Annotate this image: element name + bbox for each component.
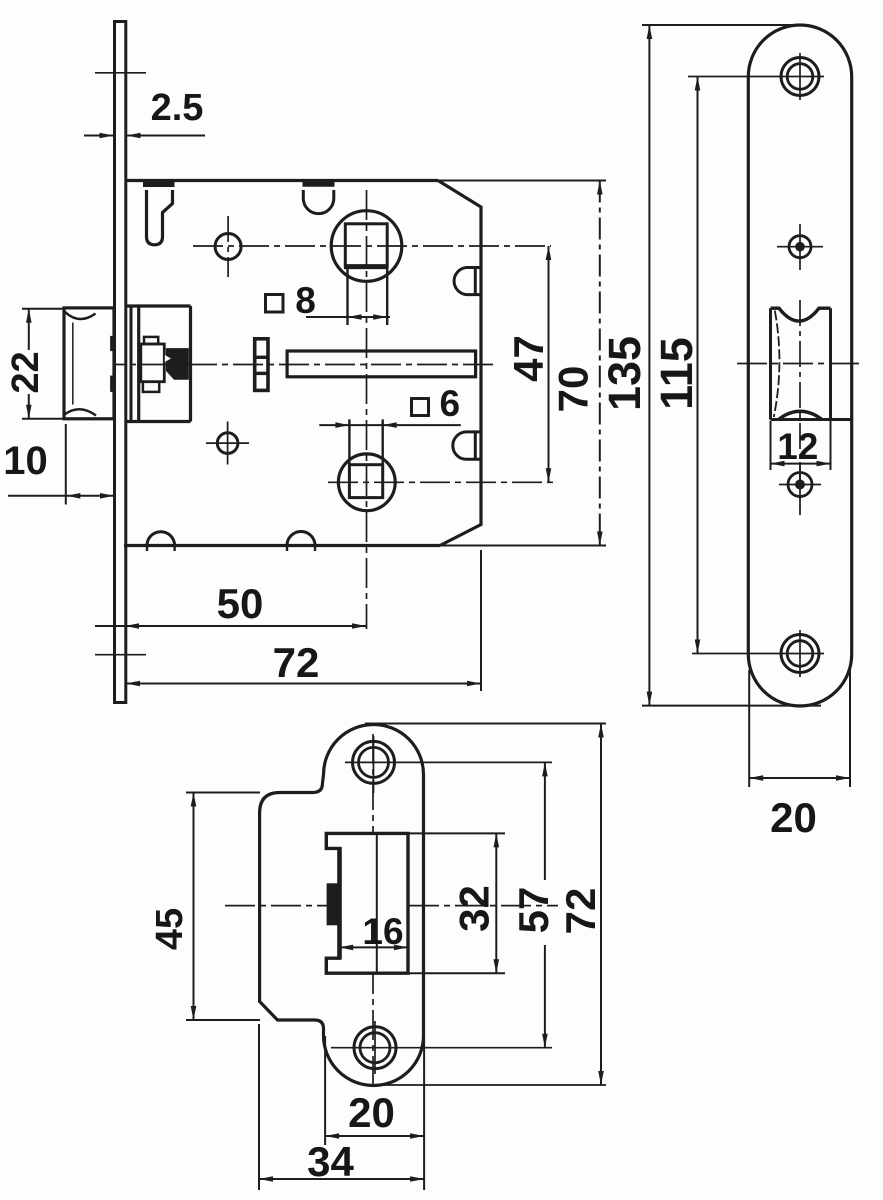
dimension 12 <box>770 421 772 470</box>
strike bottom screw hole <box>354 1027 396 1069</box>
big circle handle hub <box>331 211 402 282</box>
upper horizontal centerline <box>193 245 551 247</box>
bottom bump right <box>287 532 315 546</box>
dimension 6 <box>319 424 461 426</box>
latch opening bottom edge <box>771 418 852 421</box>
dimension 32 <box>408 832 505 834</box>
spindle vertical centerline <box>366 190 368 629</box>
svg-text:70: 70 <box>550 366 597 413</box>
small circle lower-left <box>217 433 238 454</box>
latch opening top edge with dip <box>771 308 831 321</box>
svg-text:16: 16 <box>362 911 403 952</box>
dimension 47 <box>548 246 550 482</box>
square spindle hole 8mm <box>345 224 387 267</box>
svg-text:20: 20 <box>348 1089 395 1136</box>
small circle upper-left <box>215 234 241 260</box>
square hole 6mm label <box>412 399 429 416</box>
lock body top edge with extension <box>126 179 438 182</box>
top U-cup outline <box>303 190 334 214</box>
strike latch hole <box>326 833 408 973</box>
dimension 115 <box>697 77 699 654</box>
dimension 8 <box>306 316 390 318</box>
dimension 70 <box>599 181 601 546</box>
lock body right edge with chamfers <box>438 181 481 546</box>
svg-text:57: 57 <box>510 887 557 934</box>
dimension 34 <box>258 1024 260 1190</box>
faceplate edge strip <box>115 22 126 703</box>
faceplate outline <box>748 25 851 706</box>
latch hole divider <box>376 833 378 973</box>
small circle vertical centerline <box>227 216 229 277</box>
svg-text:72: 72 <box>557 888 604 935</box>
svg-text:8: 8 <box>295 280 316 321</box>
lower spindle circle <box>338 454 395 511</box>
top U-cup rim bar <box>303 179 335 187</box>
latch tail edge line <box>130 308 133 421</box>
svg-text:10: 10 <box>3 439 48 483</box>
D-cutout lower right <box>453 432 481 459</box>
strike top screw hole <box>353 741 395 783</box>
lock body bottom edge with extension <box>124 544 440 547</box>
strike vertical centerline <box>372 734 374 1090</box>
dimension 20 (faceplate) <box>748 670 750 787</box>
svg-text:50: 50 <box>217 580 264 627</box>
svg-text:20: 20 <box>770 794 817 841</box>
svg-text:32: 32 <box>451 885 498 932</box>
slotted plate <box>255 339 268 391</box>
top screw hole <box>781 58 819 96</box>
strike horizontal centerline <box>225 905 558 907</box>
follower top nub <box>144 337 158 344</box>
lower pin hole <box>788 473 812 497</box>
strike plate outline <box>260 725 424 1086</box>
middle pin hole <box>789 236 811 258</box>
svg-text:45: 45 <box>149 908 191 950</box>
dimension 20 (strike) <box>324 1036 326 1145</box>
lower square spindle hole 6mm <box>349 465 382 498</box>
dimension 22 <box>22 308 63 310</box>
135 top extension line <box>642 24 793 26</box>
bottom bump left <box>147 532 175 546</box>
strip bottom screw centerline tick <box>95 654 146 656</box>
dimension 45 <box>186 792 260 794</box>
faceplate horizontal centerline (latch axis) <box>737 363 863 365</box>
latch bolt curved face <box>774 311 780 418</box>
dimension 135 <box>648 25 650 706</box>
follower bottom nub <box>143 382 159 392</box>
lower spindle horizontal centerline <box>328 481 553 483</box>
D-cutout upper right <box>454 268 481 295</box>
spindle hole side projection lines <box>346 269 348 325</box>
135 bottom extension line <box>642 705 821 707</box>
svg-text:47: 47 <box>505 335 552 382</box>
svg-text:34: 34 <box>307 1138 354 1185</box>
latch opening sides <box>769 308 772 419</box>
bottom screw hole <box>781 635 819 673</box>
dimension 72 (strike) <box>365 723 606 725</box>
hook cutout rim bar <box>143 179 175 187</box>
svg-text:72: 72 <box>273 639 320 686</box>
strike black tab <box>327 883 341 925</box>
latch follower block <box>141 344 165 382</box>
faceplate vertical centerline <box>799 300 801 515</box>
svg-text:115: 115 <box>651 337 702 410</box>
latch spring (solid) <box>166 348 189 380</box>
svg-text:12: 12 <box>777 426 818 467</box>
main horizontal centerline (latch axis) <box>95 364 498 366</box>
strip top screw centerline tick <box>95 72 146 74</box>
dimension 72 (body) <box>480 550 482 691</box>
svg-text:2.5: 2.5 <box>151 87 204 129</box>
dimension 2.5 <box>84 135 114 137</box>
lower spindle projection lines <box>348 419 350 464</box>
latch bolt bump in opening <box>779 411 823 419</box>
latch housing box <box>137 306 140 422</box>
dimension 16 <box>339 946 408 948</box>
dimension 10 <box>65 424 67 505</box>
svg-text:135: 135 <box>599 336 650 411</box>
svg-text:6: 6 <box>440 383 461 424</box>
long slot bar <box>287 351 476 377</box>
hook cutout outline <box>147 190 173 245</box>
dimension 57 <box>544 762 546 880</box>
latch bolt head <box>64 308 114 419</box>
svg-text:22: 22 <box>5 351 47 393</box>
dimension 50 <box>95 625 366 627</box>
